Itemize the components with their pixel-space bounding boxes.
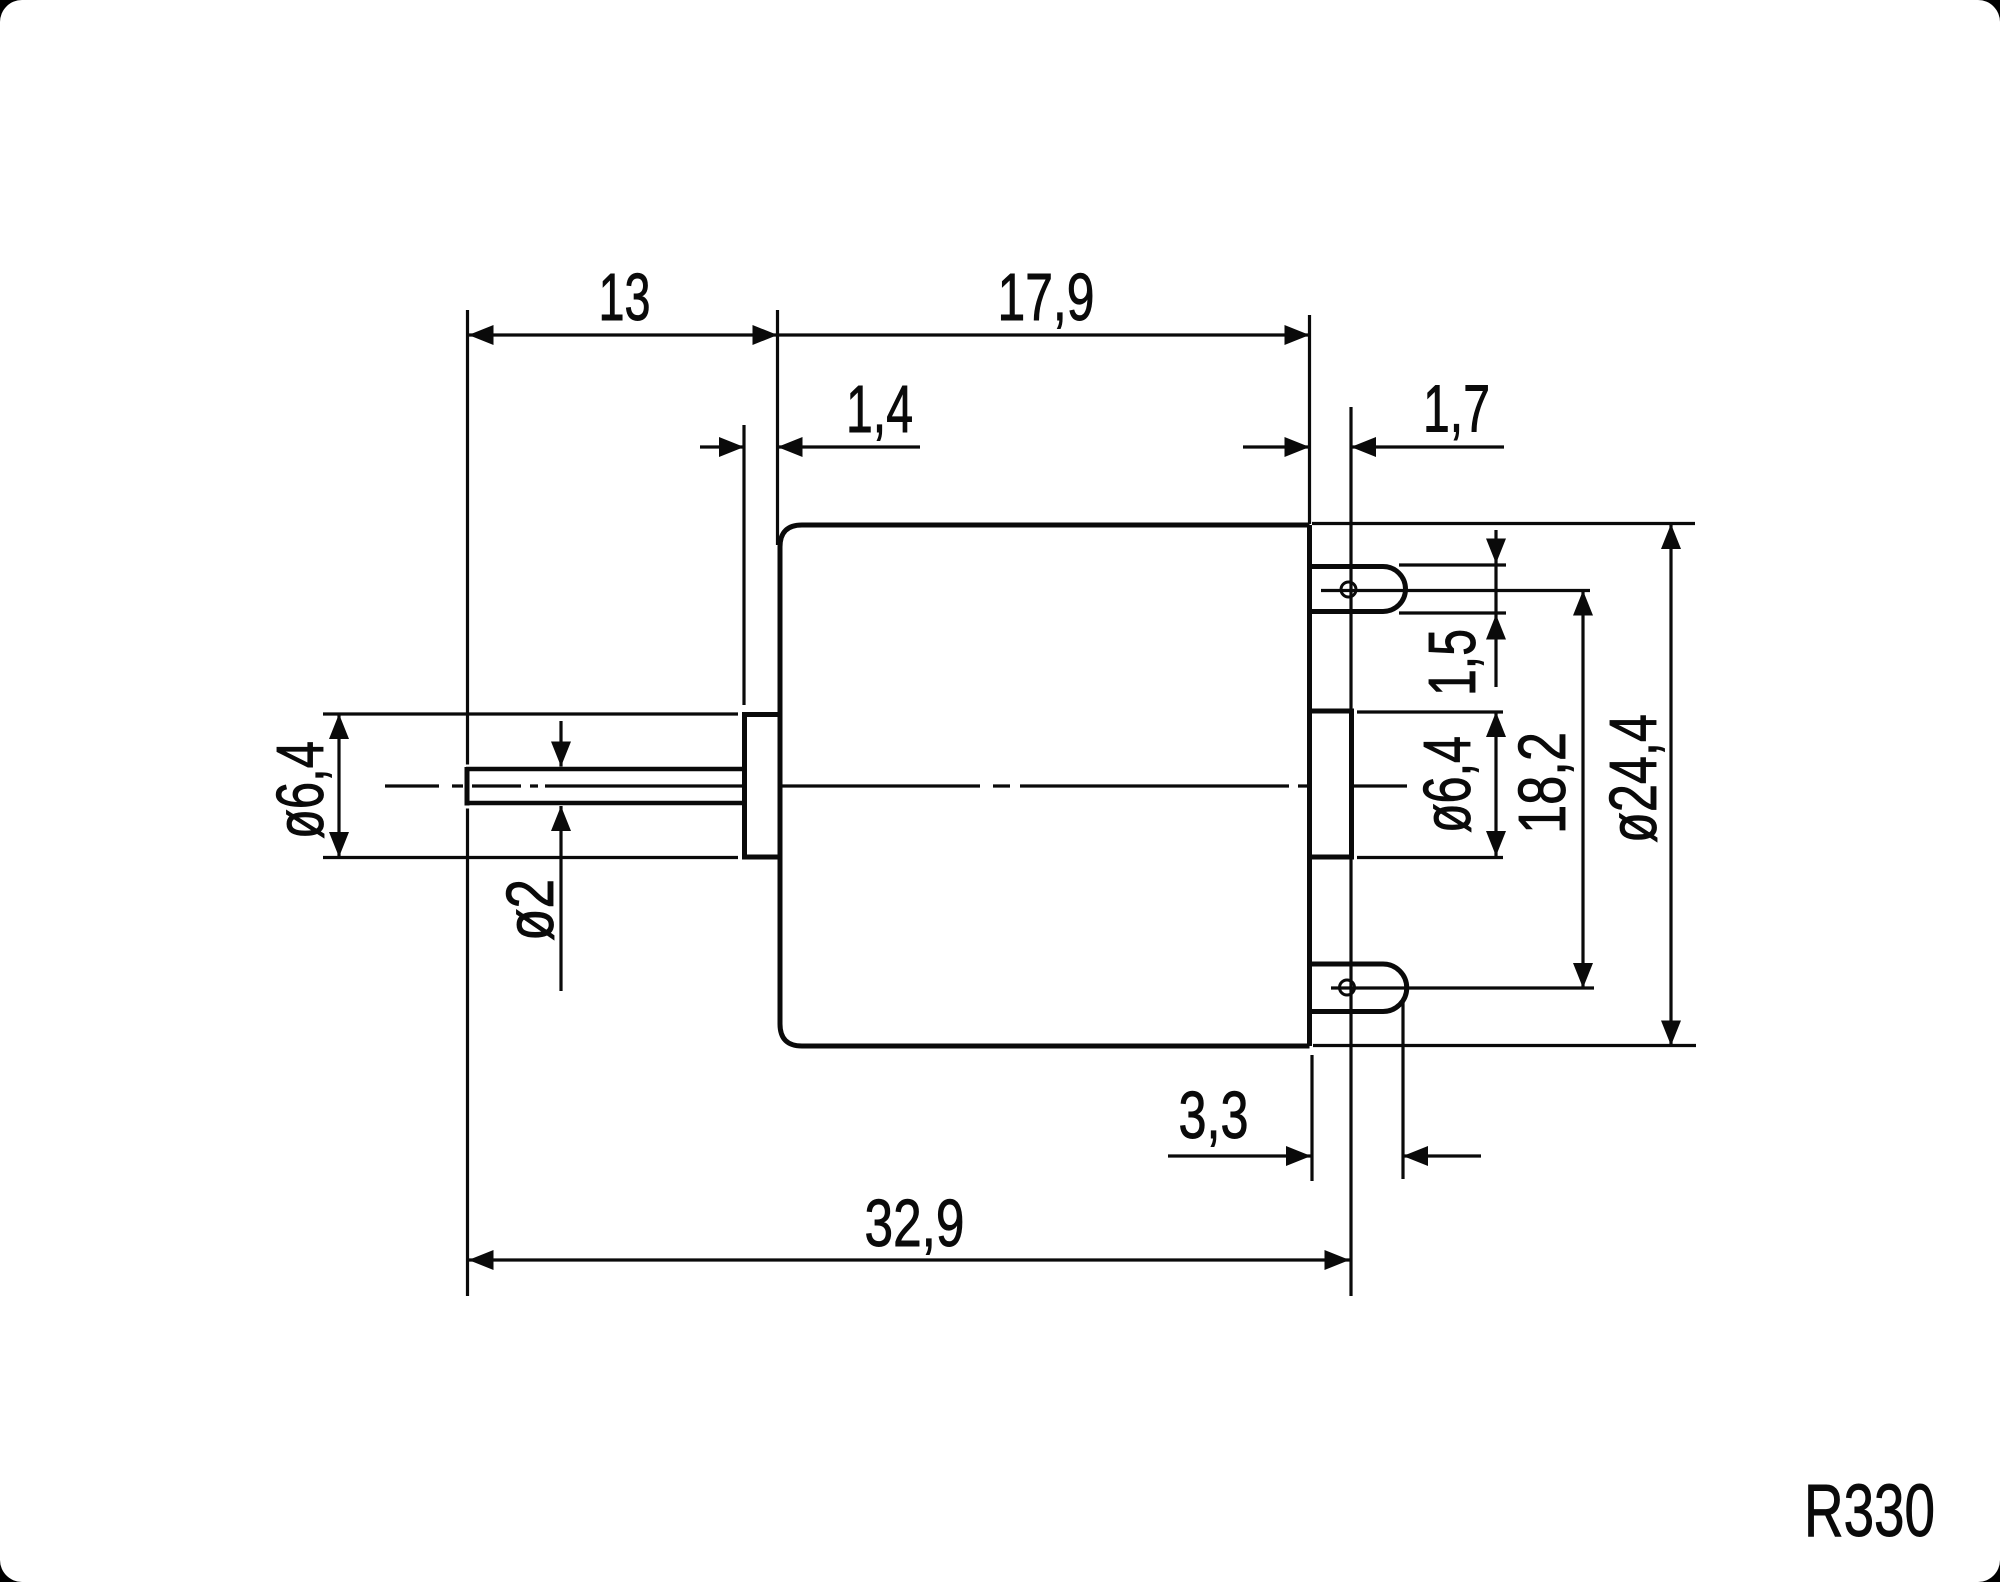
svg-text:R330: R330 bbox=[1804, 1469, 1935, 1552]
dimension right ø6,4 line bbox=[1494, 712, 1497, 856]
extension line E12 (ø24,4 upper) bbox=[1312, 522, 1695, 525]
extension line E7 (1,5 lower) bbox=[1399, 611, 1506, 614]
svg-text:18,2: 18,2 bbox=[1506, 732, 1580, 834]
extension line E11 (18,2 lower through terminal centre) bbox=[1331, 986, 1594, 989]
rear bearing boss bbox=[1310, 711, 1352, 857]
terminal top bbox=[1310, 567, 1406, 612]
terminal bottom bbox=[1310, 964, 1407, 1012]
extension line E3 (1,4 left / collar face) bbox=[742, 425, 745, 705]
dimension 1,4 left stub and arrow bbox=[700, 445, 744, 448]
dimension 3,3 left line and arrow bbox=[1168, 1154, 1311, 1157]
dimension ø2 lower line and arrow bbox=[559, 806, 562, 991]
motor shaft top line bbox=[466, 767, 744, 772]
arrow 13 right bbox=[753, 325, 778, 345]
extension line E13 (ø24,4 lower) bbox=[1313, 1044, 1696, 1047]
motor body outline bbox=[780, 525, 1310, 1046]
svg-text:1,5: 1,5 bbox=[1416, 629, 1490, 696]
dimension 18,2 line bbox=[1581, 591, 1584, 989]
dimension 1,7 left stub and arrow bbox=[1243, 445, 1310, 448]
extension line E9 (right ø6,4 lower) bbox=[1357, 856, 1503, 859]
svg-text:ø2: ø2 bbox=[494, 879, 568, 941]
shaft end cap bbox=[465, 767, 470, 806]
svg-text:17,9: 17,9 bbox=[998, 261, 1095, 335]
arrow 17,9 right bbox=[1285, 325, 1310, 345]
svg-text:ø6,4: ø6,4 bbox=[1411, 736, 1485, 833]
extension line E10 (18,2 upper through terminal centre) bbox=[1321, 589, 1590, 592]
extension line E14 (left ø6,4 upper) bbox=[323, 712, 738, 715]
dimension 13 / 17,9 line bbox=[469, 333, 1310, 336]
extension line E17 (3,3 right below terminal) bbox=[1401, 1002, 1404, 1179]
dimension left ø6,4 line bbox=[337, 714, 340, 857]
motor shaft bottom line bbox=[466, 801, 744, 806]
dimension 32,9 line bbox=[469, 1258, 1350, 1261]
extension line E5 (1,7 right / 32,9 right, terminal centres) bbox=[1349, 407, 1352, 1296]
extension line E15 (left ø6,4 lower) bbox=[323, 856, 738, 859]
dimension ø2 upper stub and arrow bbox=[559, 721, 562, 767]
svg-text:ø6,4: ø6,4 bbox=[264, 741, 338, 839]
terminal bottom hole bbox=[1340, 980, 1355, 995]
extension line E8 (right ø6,4 upper) bbox=[1357, 710, 1503, 713]
extension line E6 (1,5 upper) bbox=[1399, 563, 1506, 566]
svg-text:ø24,4: ø24,4 bbox=[1597, 714, 1671, 843]
dimension 3,3 right line and arrow bbox=[1403, 1154, 1481, 1157]
svg-text:1,7: 1,7 bbox=[1423, 373, 1490, 447]
arrow 13 left bbox=[469, 325, 494, 345]
terminal top hole bbox=[1341, 582, 1356, 597]
svg-text:3,3: 3,3 bbox=[1179, 1079, 1249, 1153]
extension line E2 (13 right / 17,9 left) bbox=[776, 310, 779, 545]
extension line E16 (3,3 left below terminal) bbox=[1310, 1055, 1313, 1181]
extension line E4 (17,9 right / 1,7 left) bbox=[1308, 315, 1311, 524]
dimension 1,5 line and arrows bbox=[1494, 530, 1497, 687]
centre axis line bbox=[385, 784, 1407, 787]
svg-text:1,4: 1,4 bbox=[846, 373, 913, 447]
svg-text:13: 13 bbox=[599, 261, 651, 335]
svg-text:32,9: 32,9 bbox=[865, 1187, 965, 1261]
extension line E1 (left, shared by 13 / 32,9) bbox=[466, 310, 469, 765]
dimension 1,4 right stub and arrow bbox=[778, 445, 921, 448]
front bearing collar bbox=[745, 715, 781, 858]
dimension ø24,4 line bbox=[1669, 524, 1672, 1046]
dimension 1,7 right stub and arrow bbox=[1351, 445, 1504, 448]
